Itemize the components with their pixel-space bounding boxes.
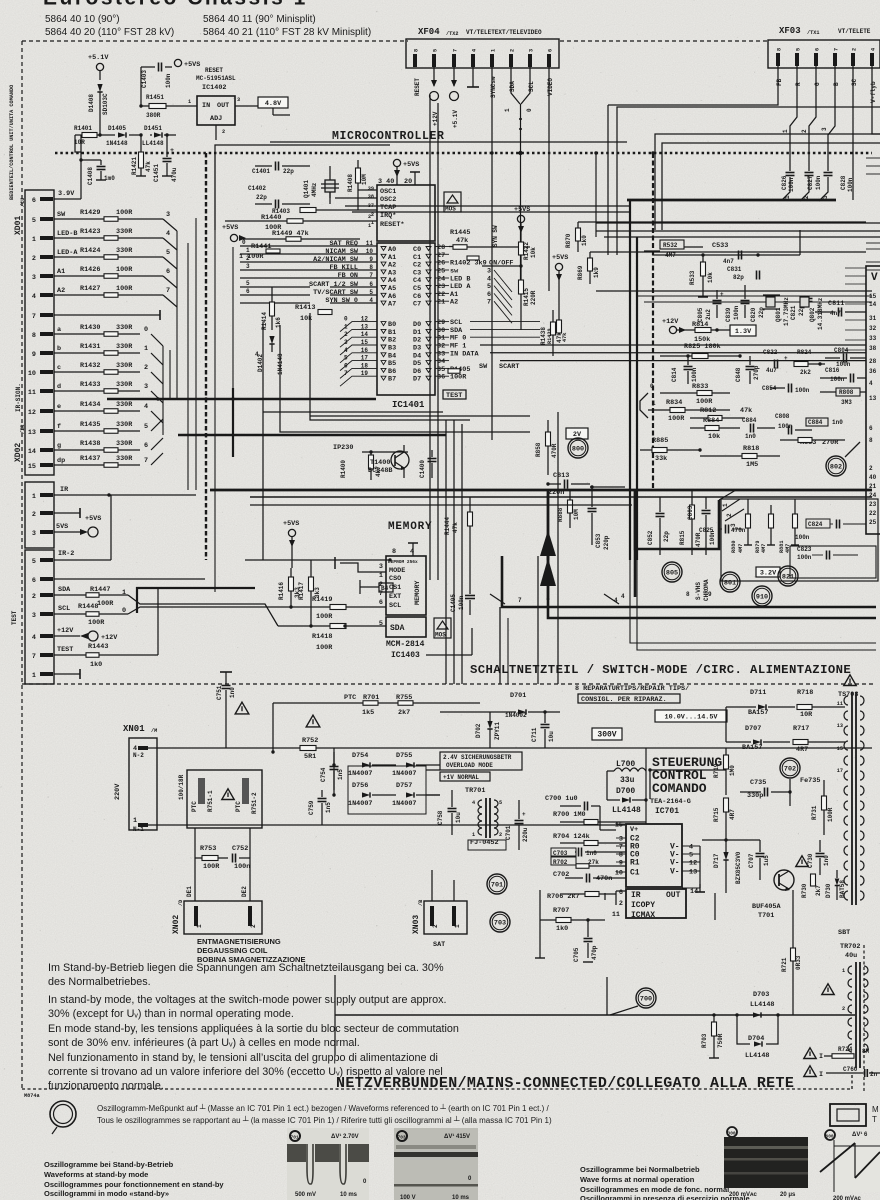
svg-text:Waveforms at stand-by mode: Waveforms at stand-by mode <box>44 1170 148 1179</box>
svg-text:TV/SCART SW: TV/SCART SW <box>313 289 359 297</box>
svg-text:R1445: R1445 <box>450 229 470 237</box>
wire XD01 row dp diagonal to bus <box>151 453 163 465</box>
svg-text:5864 40 21 (110° FST 28 kV Min: 5864 40 21 (110° FST 28 kV Minisplit) <box>203 27 371 38</box>
svg-text:A7: A7 <box>388 301 396 309</box>
svg-text:VIDEO: VIDEO <box>547 78 554 96</box>
svg-text:2: 2 <box>250 924 257 928</box>
svg-text:En mode stand-by, les tensions: En mode stand-by, les tensions appliquée… <box>48 1023 459 1035</box>
wire main y1015 <box>335 1014 855 1016</box>
svg-text:22p: 22p <box>256 194 267 201</box>
svg-text:SCART: SCART <box>499 363 519 371</box>
svg-text:D2: D2 <box>413 337 421 345</box>
XN03 pin 2 <box>430 906 434 926</box>
svg-text:1: 1 <box>652 400 656 407</box>
svg-text:10M: 10M <box>361 174 368 185</box>
svg-text:0: 0 <box>526 108 533 112</box>
svg-text:R1414: R1414 <box>261 312 268 330</box>
svg-text:2: 2 <box>344 331 348 338</box>
svg-text:1k0: 1k0 <box>90 661 102 669</box>
svg-text:3.9V: 3.9V <box>58 190 75 198</box>
svg-text:2k7: 2k7 <box>398 709 410 717</box>
IC1401 pin row A2/C2 <box>381 262 386 266</box>
svg-text:MC-51951ASL: MC-51951ASL <box>196 75 236 82</box>
bus verticals center below IC1401 <box>445 420 447 684</box>
svg-text:SYN SW 0: SYN SW 0 <box>325 297 358 305</box>
svg-text:1: 1 <box>133 817 137 825</box>
svg-text:47k: 47k <box>456 237 468 245</box>
svg-text:100n: 100n <box>795 534 810 541</box>
svg-text:A2: A2 <box>388 262 396 270</box>
svg-text:M: M <box>872 1105 879 1114</box>
svg-text:100n: 100n <box>797 554 812 561</box>
svg-text:14: 14 <box>28 448 36 456</box>
svg-text:1: 1 <box>246 247 250 254</box>
svg-text:SW: SW <box>57 211 66 219</box>
svg-text:R1418: R1418 <box>312 633 332 641</box>
svg-text:SD103C: SD103C <box>102 93 109 115</box>
svg-text:R1401: R1401 <box>74 125 92 132</box>
svg-text:17: 17 <box>837 768 843 774</box>
svg-text:C700 1u0: C700 1u0 <box>545 795 578 803</box>
svg-text:BUF405A: BUF405A <box>752 903 781 911</box>
svg-text:703: 703 <box>398 1135 406 1141</box>
svg-text:1k6: 1k6 <box>275 317 282 328</box>
svg-text:ZPY11: ZPY11 <box>494 722 501 740</box>
svg-text:18: 18 <box>361 362 369 369</box>
svg-text:FB ON: FB ON <box>338 272 358 280</box>
svg-text:OUT: OUT <box>217 102 229 110</box>
bus verticals between connectors and ICs <box>162 346 164 435</box>
svg-text:D5: D5 <box>413 360 421 368</box>
svg-text:IC701: IC701 <box>655 807 679 816</box>
svg-text:17: 17 <box>361 355 369 362</box>
IC1401 pin row A6/C6 <box>381 293 386 297</box>
svg-text:C701: C701 <box>505 825 512 840</box>
svg-text:100n: 100n <box>234 863 250 871</box>
svg-text:16: 16 <box>361 347 369 354</box>
svg-text:C826: C826 <box>781 175 788 190</box>
svg-text:10.0V...14.5V: 10.0V...14.5V <box>664 713 718 721</box>
svg-text:R884: R884 <box>703 417 719 425</box>
svg-text:13: 13 <box>837 723 843 729</box>
svg-text:22p: 22p <box>283 168 294 175</box>
wire XF03 R down with jog <box>790 66 797 167</box>
svg-text:7: 7 <box>453 49 459 52</box>
svg-text:D707: D707 <box>745 725 761 733</box>
svg-text:DEGAUSSING COIL: DEGAUSSING COIL <box>197 946 268 955</box>
svg-text:R1421: R1421 <box>131 157 138 175</box>
svg-text:100n: 100n <box>458 595 465 610</box>
svg-text:1n5: 1n5 <box>337 769 344 780</box>
svg-text:100R: 100R <box>116 285 133 293</box>
svg-text:Oscillogrammes pour fonctionne: Oscillogrammes pour fonctionnement en st… <box>44 1180 224 1189</box>
svg-text:MCM-2814: MCM-2814 <box>386 640 425 649</box>
svg-text:R703: R703 <box>701 1033 708 1048</box>
svg-text:3: 3 <box>379 563 383 571</box>
wire XD01 row c diagonal to bus <box>151 372 163 384</box>
svg-text:6: 6 <box>487 291 491 299</box>
IC1401 pin row A0/C0 <box>381 247 386 251</box>
svg-text:R858: R858 <box>535 442 542 457</box>
wires right rows extend <box>470 321 540 323</box>
svg-text:R702: R702 <box>553 859 568 866</box>
svg-text:BA157: BA157 <box>742 744 762 752</box>
svg-text:2: 2 <box>246 255 250 262</box>
wire fan to B3 <box>340 345 377 355</box>
bus horizontals y223-237 right side <box>596 222 880 224</box>
svg-text:470R: 470R <box>695 532 702 547</box>
svg-text:C804: C804 <box>834 347 849 354</box>
svg-text:BC848B: BC848B <box>368 467 392 475</box>
big solid arrow up 1 <box>540 530 556 556</box>
wire XD01 row g diagonal to bus <box>151 438 163 450</box>
wire SDA row to memory <box>278 625 386 627</box>
svg-text:C758: C758 <box>437 810 444 825</box>
svg-text:R532: R532 <box>663 242 678 249</box>
svg-text:47k: 47k <box>145 161 152 172</box>
svg-text:5VS: 5VS <box>56 523 68 531</box>
svg-text:TEST: TEST <box>446 392 462 400</box>
svg-text:8: 8 <box>686 591 690 598</box>
svg-text:20 μs: 20 μs <box>780 1192 796 1198</box>
svg-text:100/18R: 100/18R <box>178 774 185 800</box>
svg-text:/D: /D <box>178 900 184 906</box>
svg-text:1.3V: 1.3V <box>735 328 752 336</box>
svg-text:B2: B2 <box>388 337 396 345</box>
svg-text:R825 180k: R825 180k <box>684 343 721 351</box>
svg-text:R1438: R1438 <box>80 440 100 448</box>
waveform circle 800 <box>568 438 588 458</box>
svg-text:25: 25 <box>869 519 877 526</box>
dashed section divider between control and SMPS part <box>22 683 876 685</box>
svg-text:C816: C816 <box>825 367 840 374</box>
svg-text:31: 31 <box>869 315 877 322</box>
warning triangle TR702 <box>822 984 834 995</box>
wire XF03 V-flyb down <box>872 66 880 134</box>
svg-text:R751-2: R751-2 <box>251 792 258 814</box>
svg-text:+12V: +12V <box>662 318 679 326</box>
svg-text:R1443: R1443 <box>88 643 108 651</box>
svg-text:B7: B7 <box>388 376 396 384</box>
bus horizontal y302 <box>644 301 872 303</box>
routing box below left rows <box>310 313 470 420</box>
svg-text:0: 0 <box>650 383 654 390</box>
svg-text:R1413: R1413 <box>295 304 315 312</box>
svg-text:C884: C884 <box>742 417 757 424</box>
svg-text:f: f <box>57 423 61 431</box>
svg-text:6: 6 <box>344 362 348 369</box>
svg-text:C1405: C1405 <box>450 594 457 612</box>
svg-text:ΔV¹ 2.70V: ΔV¹ 2.70V <box>331 1133 359 1140</box>
svg-text:D730: D730 <box>825 883 832 898</box>
svg-text:1N4148: 1N4148 <box>106 140 128 147</box>
wire XF04 pin SYNCsw down <box>491 67 493 153</box>
svg-text:17.73MHz: 17.73MHz <box>783 297 790 326</box>
svg-text:+5VS: +5VS <box>184 61 200 69</box>
svg-text:R1419: R1419 <box>312 596 332 604</box>
svg-text:ΔV¹ 6: ΔV¹ 6 <box>852 1131 868 1138</box>
svg-text:R700 1M0: R700 1M0 <box>553 811 586 819</box>
svg-text:1: 1 <box>842 968 845 974</box>
svg-text:1: 1 <box>144 345 148 353</box>
svg-text:DE1: DE1 <box>186 886 193 897</box>
oscillogram thumbnail 415V standby <box>394 1128 478 1200</box>
svg-text:+5VS: +5VS <box>403 161 419 169</box>
wire y505 left segment <box>250 504 632 506</box>
svg-text:V-: V- <box>670 859 680 868</box>
wire XF03 SC down <box>852 66 854 200</box>
svg-text:4: 4 <box>869 380 873 387</box>
svg-text:15: 15 <box>361 339 369 346</box>
svg-text:330R: 330R <box>116 362 133 370</box>
resistor R702 27k boxed label <box>551 857 576 865</box>
svg-text:100n: 100n <box>778 423 793 430</box>
svg-text:15: 15 <box>869 293 877 300</box>
2V callout box <box>566 428 588 439</box>
callout 1.3V <box>730 325 756 336</box>
svg-text:7: 7 <box>487 299 491 307</box>
svg-text:M874a: M874a <box>24 1093 40 1099</box>
svg-text:FB KILL: FB KILL <box>329 264 358 272</box>
svg-text:SC: SC <box>851 78 858 86</box>
svg-text:5: 5 <box>499 800 502 806</box>
svg-text:100R: 100R <box>668 415 685 423</box>
svg-text:300V: 300V <box>597 730 616 739</box>
svg-text:R1417: R1417 <box>298 582 305 600</box>
svg-text:330R: 330R <box>116 324 133 332</box>
svg-text:100n: 100n <box>830 376 845 383</box>
svg-text:30: 30 <box>437 327 445 335</box>
svg-text:A0: A0 <box>388 246 396 254</box>
svg-text:PTC: PTC <box>235 801 242 812</box>
degauss module box <box>187 770 262 828</box>
bus nested corners right <box>630 558 876 643</box>
svg-text:R1429: R1429 <box>80 209 100 217</box>
svg-text:2: 2 <box>432 924 439 928</box>
svg-text:SW: SW <box>479 363 488 371</box>
wire XD01 row A2 diagonal to bus <box>163 295 177 307</box>
svg-text:D1405: D1405 <box>108 125 126 132</box>
svg-text:+12V: +12V <box>101 634 118 642</box>
main bus horizontal y291 right <box>596 290 872 292</box>
svg-text:14: 14 <box>361 331 369 338</box>
capacitor C826 100n <box>786 172 795 174</box>
svg-text:Q1401: Q1401 <box>303 180 310 198</box>
svg-text:1N4002: 1N4002 <box>505 712 527 719</box>
svg-text:Wave forms at normal operation: Wave forms at normal operation <box>580 1175 695 1184</box>
IC701 box <box>626 824 682 887</box>
svg-text:R1423: R1423 <box>80 228 100 236</box>
svg-text:4: 4 <box>472 800 475 806</box>
svg-text:MOS: MOS <box>435 632 446 639</box>
svg-text:802: 802 <box>830 464 842 472</box>
svg-text:SDA: SDA <box>509 81 516 92</box>
wire XF04 VIDEO down <box>548 67 550 291</box>
svg-text:19: 19 <box>361 370 369 377</box>
svg-text:200 mVᴀᴄ: 200 mVᴀᴄ <box>729 1192 758 1198</box>
svg-text:/TX1: /TX1 <box>807 30 819 36</box>
svg-text:38: 38 <box>869 345 877 352</box>
svg-text:C824: C824 <box>808 521 823 528</box>
svg-text:TR701: TR701 <box>465 787 485 795</box>
svg-text:A2: A2 <box>57 287 65 295</box>
svg-text:e: e <box>57 403 61 411</box>
svg-text:PTC: PTC <box>344 694 356 702</box>
svg-text:Oscillogrammi in presenza di e: Oscillogrammi in presenza di esercizio n… <box>580 1194 750 1200</box>
wire long vertical x540 <box>539 890 541 958</box>
svg-text:703: 703 <box>494 920 506 928</box>
wire fan to B6 <box>340 368 377 378</box>
svg-text:2n: 2n <box>870 1071 878 1078</box>
svg-text:D1408: D1408 <box>88 94 95 112</box>
svg-text:A3: A3 <box>388 269 396 277</box>
svg-text:R1444: R1444 <box>444 517 451 535</box>
svg-text:CSO: CSO <box>389 575 401 583</box>
svg-text:10R: 10R <box>74 139 85 146</box>
svg-text:1: 1 <box>454 924 461 928</box>
wire right verticals to transformer <box>725 707 727 742</box>
video IC partial box at right edge <box>866 266 880 534</box>
svg-text:13: 13 <box>28 429 36 437</box>
svg-text:NETZVERBUNDEN/MAINS-CONNECTED/: NETZVERBUNDEN/MAINS-CONNECTED/COLLEGATO … <box>336 1075 794 1092</box>
svg-text:1: 1 <box>782 129 789 133</box>
svg-text:40: 40 <box>869 474 877 481</box>
IC1401 pin row A4/C4 <box>381 278 386 282</box>
svg-text:3.2V: 3.2V <box>760 569 777 577</box>
svg-text:47k: 47k <box>452 522 459 533</box>
XN02 pin 1 <box>194 906 198 926</box>
svg-text:OVERLOAD MODE: OVERLOAD MODE <box>446 762 493 769</box>
thick vertical with junction to arrows <box>547 490 550 600</box>
svg-text:2k2: 2k2 <box>800 369 811 376</box>
svg-text:22p: 22p <box>663 531 670 542</box>
svg-text:NICAM SW: NICAM SW <box>325 248 359 256</box>
warning triangles bottom right pair <box>804 1048 816 1059</box>
svg-text:R833: R833 <box>692 383 708 391</box>
TEST label boxed <box>443 390 466 399</box>
XF04 signal +12V with terminal <box>433 67 435 86</box>
svg-text:Im Stand-by-Betrieb liegen die: Im Stand-by-Betrieb liegen die Spannunge… <box>48 962 444 974</box>
svg-text:100n: 100n <box>815 175 822 190</box>
wire XD01 row d diagonal to bus <box>151 391 163 403</box>
svg-text:10 ms: 10 ms <box>340 1192 358 1198</box>
svg-text:R1424: R1424 <box>80 247 100 255</box>
warning triangle in degauss box <box>222 789 234 800</box>
svg-text:21: 21 <box>437 299 445 307</box>
svg-text:R1415: R1415 <box>523 288 530 306</box>
connector XD01 box <box>25 190 54 475</box>
svg-text:33u: 33u <box>620 776 635 785</box>
svg-text:36: 36 <box>869 368 877 375</box>
svg-text:10k: 10k <box>530 247 537 258</box>
svg-text:330R: 330R <box>116 228 133 236</box>
resistor R1402 body <box>467 256 479 260</box>
svg-text:7: 7 <box>518 597 522 604</box>
connector XN01 box <box>129 738 157 830</box>
thick bus line y200 <box>627 199 836 202</box>
svg-text:+5VS: +5VS <box>283 520 299 528</box>
svg-text:C820: C820 <box>750 307 757 322</box>
svg-text:6: 6 <box>32 197 36 205</box>
wire bus FB vertical down <box>607 105 609 255</box>
wire box outline around crystal cluster <box>215 145 390 230</box>
svg-text:In stand-by mode, the voltages: In stand-by mode, the voltages at the sw… <box>48 994 447 1006</box>
svg-text:7: 7 <box>166 287 170 295</box>
chassis dotted line across schematic <box>55 152 872 155</box>
svg-text:R751-1: R751-1 <box>207 790 214 812</box>
svg-text:A1: A1 <box>57 268 65 276</box>
bold wire y588 <box>137 588 255 613</box>
MOS warning box upper <box>444 192 461 212</box>
svg-text:0: 0 <box>144 326 148 334</box>
svg-text:C2: C2 <box>413 262 421 270</box>
svg-text:5: 5 <box>166 249 170 257</box>
svg-text:1N4007: 1N4007 <box>348 800 372 808</box>
wire fan to B1 <box>340 329 377 339</box>
connector XN03 box <box>424 901 467 934</box>
svg-text:R1451: R1451 <box>146 94 164 101</box>
svg-text:4: 4 <box>472 49 478 52</box>
waveform circle 703 <box>490 912 510 932</box>
svg-text:D0: D0 <box>413 321 421 329</box>
IC1401 pin row B4/D4 <box>381 353 386 357</box>
svg-text:1k0: 1k0 <box>556 925 568 933</box>
svg-text:27k: 27k <box>588 859 599 866</box>
svg-text:28: 28 <box>869 358 877 365</box>
svg-text:7: 7 <box>344 370 348 377</box>
svg-text:39: 39 <box>368 186 374 192</box>
TR702 windings right edge <box>855 962 857 1068</box>
svg-text:IP230: IP230 <box>333 444 353 452</box>
svg-text:1N4007: 1N4007 <box>348 770 372 778</box>
svg-text:Fe735: Fe735 <box>800 777 820 785</box>
svg-text:7: 7 <box>144 457 148 465</box>
svg-text:380R: 380R <box>146 112 161 119</box>
waveform circle 801 <box>720 572 740 592</box>
svg-text:+: + <box>720 291 724 298</box>
svg-text:1N4007: 1N4007 <box>392 800 416 808</box>
svg-text:5: 5 <box>689 852 693 860</box>
svg-text:5: 5 <box>32 217 36 225</box>
svg-text:12: 12 <box>689 860 697 868</box>
IC1401 pin row A5/C5 <box>381 286 386 290</box>
thick dashed vertical bus x206 <box>205 153 207 560</box>
wire degauss to XN02 DE2 <box>249 828 251 901</box>
svg-text:100R: 100R <box>827 807 834 822</box>
IC1401 pin row A1/C1 <box>381 254 386 258</box>
bus verticals to SMPS divider <box>499 607 501 684</box>
svg-text:b: b <box>57 345 61 353</box>
svg-text:330R: 330R <box>116 343 133 351</box>
svg-text:R1402 3k9: R1402 3k9 <box>450 260 487 268</box>
svg-text:XD01: XD01 <box>14 216 23 235</box>
svg-text:C1451: C1451 <box>153 164 160 182</box>
svg-text:D7: D7 <box>413 376 421 384</box>
svg-text:10k: 10k <box>708 433 720 441</box>
svg-text:XF04: XF04 <box>418 27 440 37</box>
svg-text:+5.1V: +5.1V <box>452 110 459 128</box>
svg-text:C814: C814 <box>671 367 678 382</box>
svg-text:T1400: T1400 <box>370 459 390 467</box>
long wires MF1 IN DATA to right edge <box>480 344 866 346</box>
bus verticals x538 x558 <box>537 556 539 684</box>
svg-text:32: 32 <box>437 343 445 351</box>
svg-text:R724: R724 <box>838 1046 853 1053</box>
svg-text:LL4148: LL4148 <box>142 140 164 147</box>
svg-text:11: 11 <box>612 911 620 919</box>
wire V- bus vertical <box>699 846 701 888</box>
label TS703 and warning <box>844 675 856 686</box>
